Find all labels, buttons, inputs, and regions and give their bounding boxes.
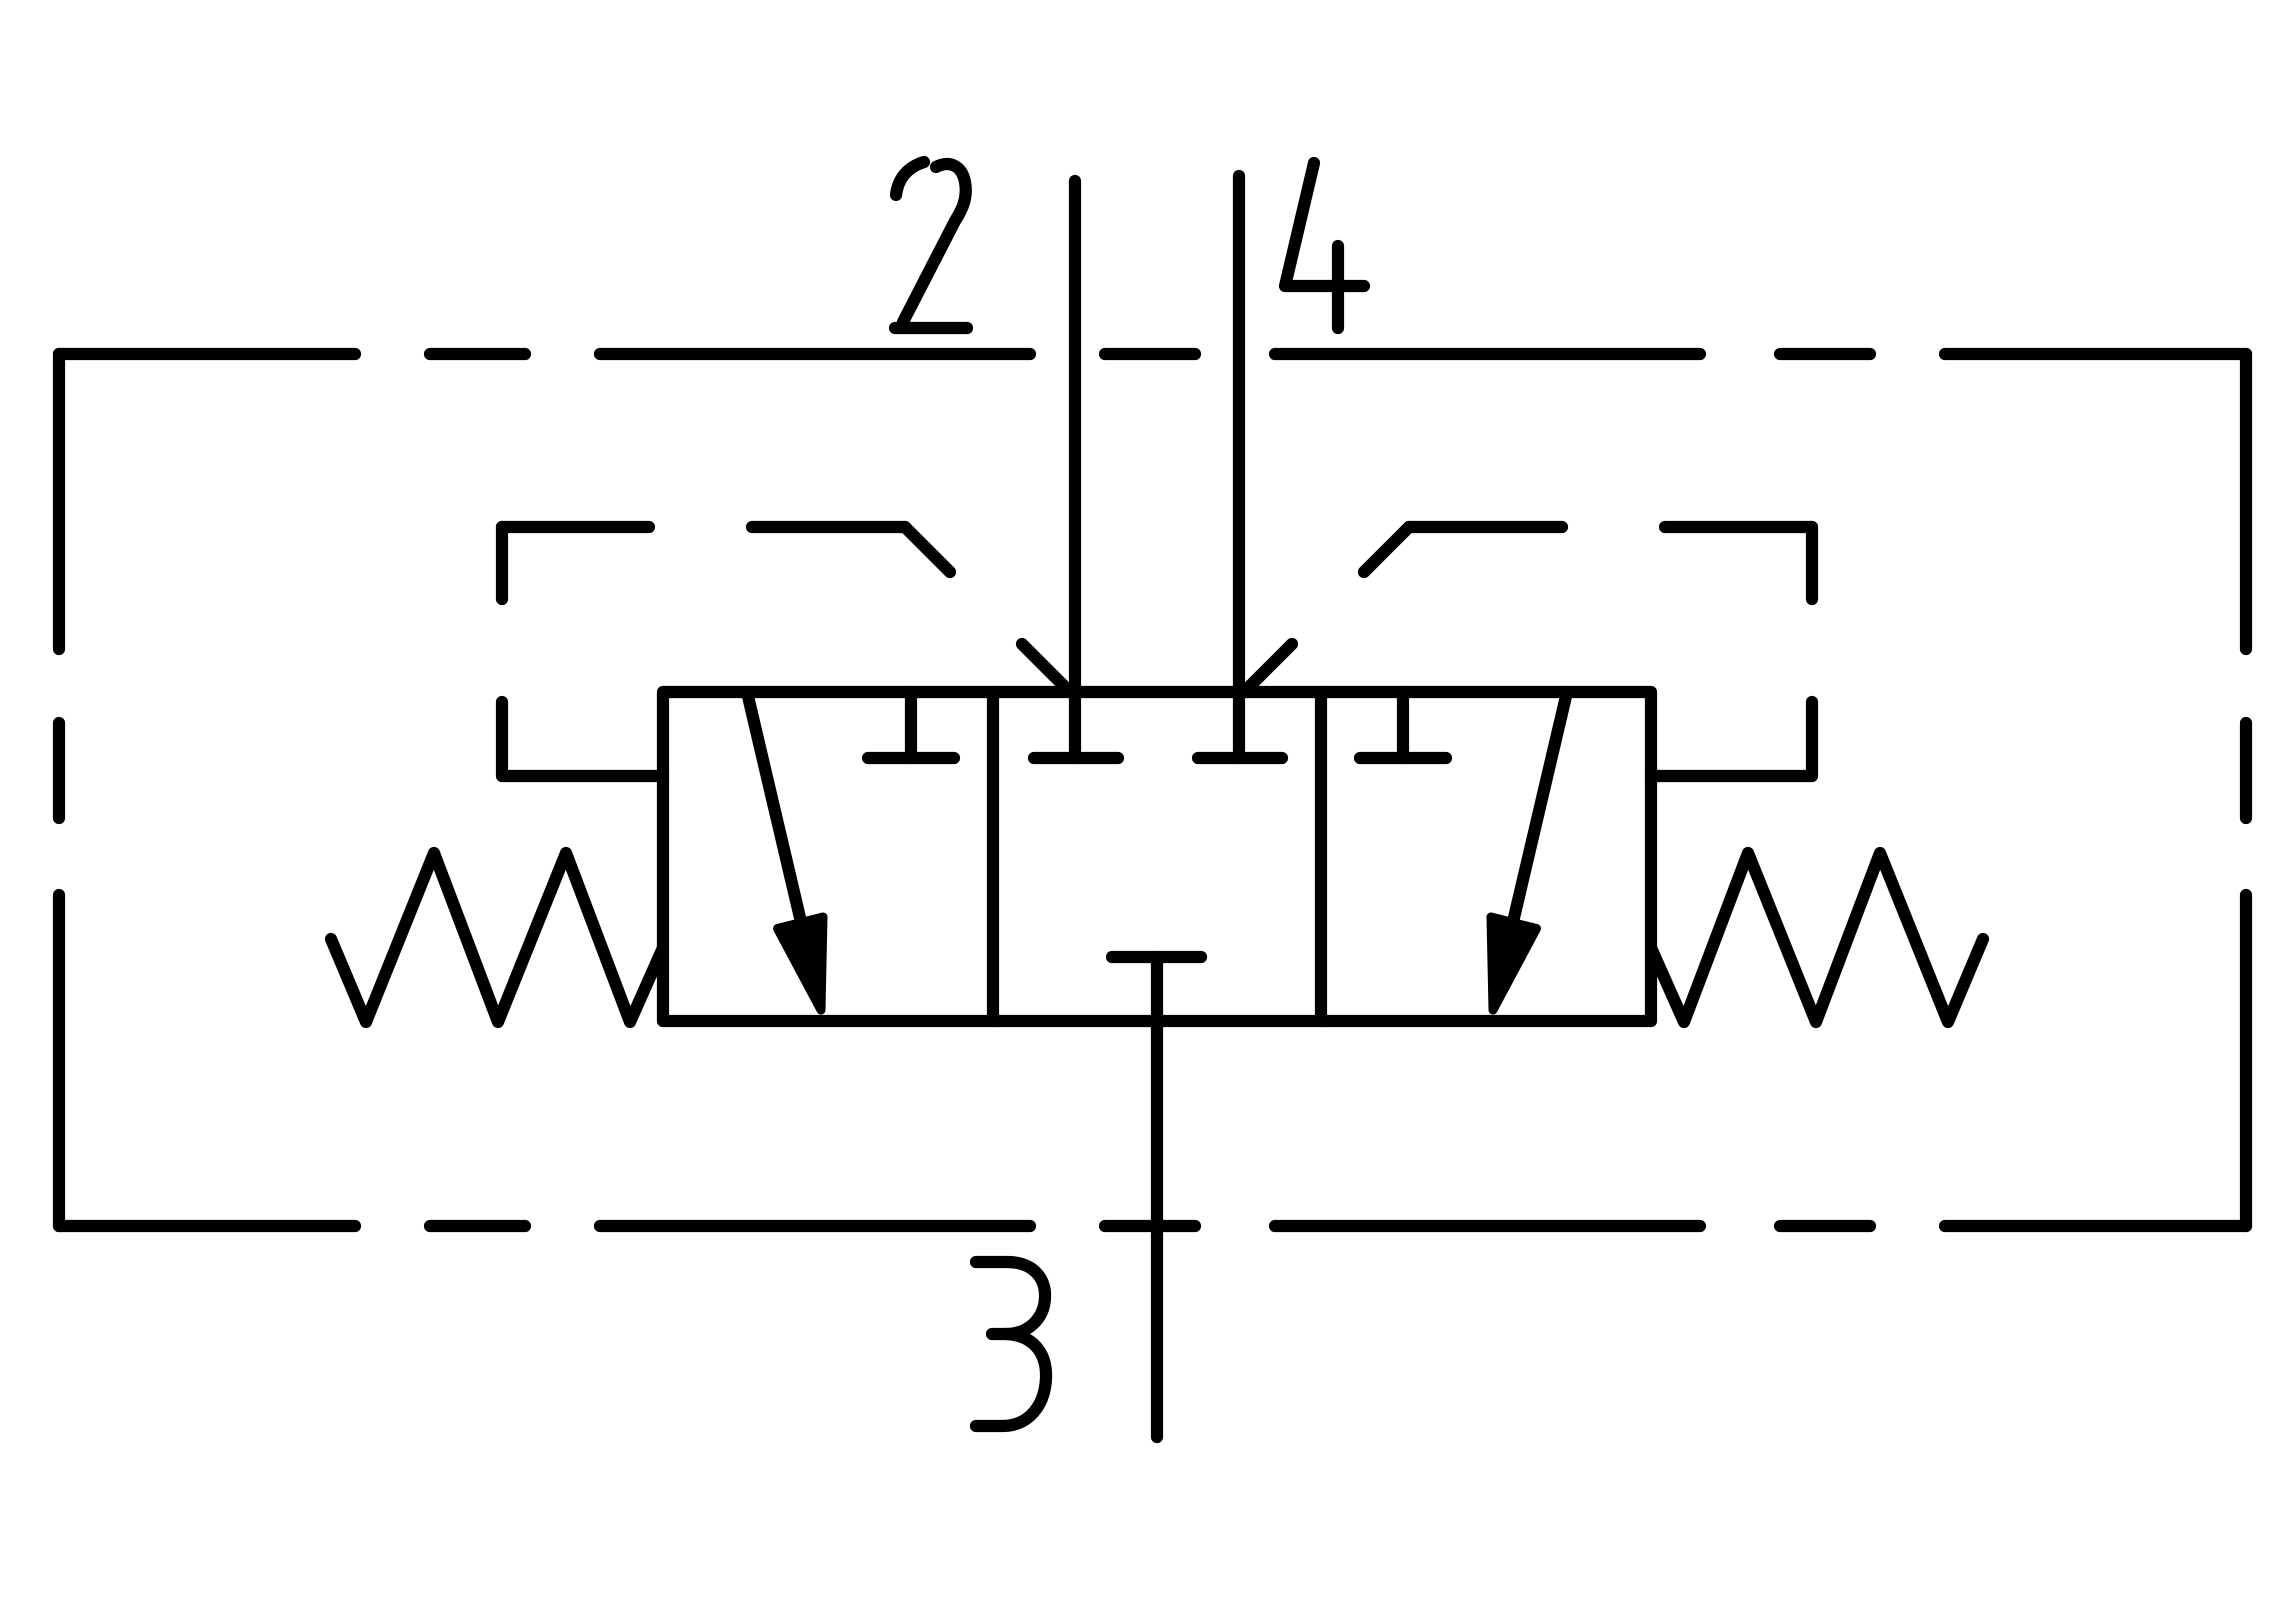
port 4 line: [1233, 176, 1245, 758]
right section flow arrow shaft: [1513, 692, 1567, 922]
pilot line right horizontal dashes: [1409, 521, 1812, 533]
left section flow arrow shaft: [747, 692, 801, 922]
valve body outline: [663, 692, 1651, 1021]
enclosure dashed boundary left edge: [53, 354, 65, 1226]
pilot line right vertical dash: [1806, 527, 1818, 599]
left section blocked port T bar: [868, 752, 954, 764]
pilot line right diagonal dashes: [1246, 527, 1409, 690]
pilot line left diagonal dashes: [905, 527, 1068, 690]
center section blocked port 4 T bar: [1198, 752, 1282, 764]
pilot line left horizontal dashes: [502, 521, 905, 533]
right section blocked port T stub: [1397, 692, 1409, 758]
enclosure dashed boundary top edge: [59, 348, 2246, 360]
right section blocked port T bar: [1360, 752, 1446, 764]
label 2 arc and diagonal stroke: [903, 164, 966, 322]
spring right: [1652, 853, 1983, 1022]
label 2 hook stroke: [896, 162, 924, 195]
port 2 line: [1069, 181, 1081, 758]
center section blocked port 3 T bar: [1112, 951, 1201, 963]
enclosure dashed boundary bottom edge: [59, 1220, 2246, 1232]
right section flow arrow head: [1491, 917, 1537, 1010]
spring left: [331, 853, 662, 1022]
valve section divider left: [987, 692, 999, 1021]
valve section divider right: [1315, 692, 1327, 1021]
center section blocked port 2 T bar: [1034, 752, 1118, 764]
pilot line right connection to valve: [1651, 702, 1812, 776]
enclosure dashed boundary right edge: [2240, 354, 2252, 1226]
label 2 base stroke: [895, 322, 967, 334]
label 4 vertical stroke: [1332, 246, 1344, 328]
label 3 lower bowl: [976, 1334, 1046, 1426]
left section blocked port T stub: [905, 692, 917, 758]
label 4 diagonal and horizontal stroke: [1285, 163, 1364, 286]
left section flow arrow head: [778, 917, 824, 1010]
pilot line left connection to valve: [502, 702, 663, 776]
port 3 line: [1151, 957, 1163, 1437]
label 3 upper bowl: [976, 1262, 1045, 1334]
pilot line left vertical dash: [496, 527, 508, 599]
